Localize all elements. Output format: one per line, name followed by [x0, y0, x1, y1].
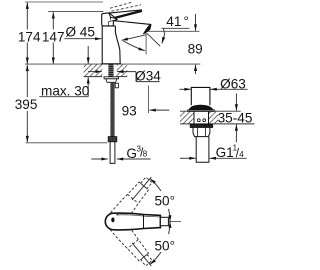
- handle open position (dashed): [110, 2, 132, 8]
- aerator mouth hatch: [143, 31, 148, 35]
- drain deck top line: [180, 110, 241, 112]
- svg-text:G1: G1: [216, 145, 234, 160]
- svg-text:147: 147: [42, 29, 65, 44]
- svg-text:3: 3: [137, 145, 142, 154]
- drain deck bottom line (also 35-45 underline): [180, 123, 255, 125]
- faucet base bottom edge on deck: [102, 63, 121, 65]
- small bracket on hose: [115, 83, 118, 88]
- spout top edge: [114, 21, 151, 25]
- rotated handle outline -50 (dashed): [105, 213, 155, 269]
- dim 174: [26, 3, 28, 30]
- countertop hatching right: [117, 65, 128, 77]
- Ø34 leader jog and underline: [135, 72, 137, 82]
- svg-text:Ø63: Ø63: [220, 77, 246, 92]
- svg-text:°: °: [184, 14, 189, 29]
- svg-text:G: G: [126, 146, 137, 161]
- dim Ø45 leader+arrow: [64, 38, 101, 40]
- drain tailpipe G1 1/4: [196, 137, 209, 163]
- hose end extension line: [26, 142, 108, 144]
- cap slot: [111, 218, 114, 223]
- mounting nut: [104, 77, 119, 79]
- drain cap: [191, 87, 210, 105]
- swivel radial line lower: [132, 243, 151, 266]
- svg-text:8: 8: [143, 150, 148, 159]
- hose end fitting: [108, 137, 117, 142]
- upper swivel arc + arrows: [169, 209, 170, 222]
- svg-text:1: 1: [233, 143, 238, 152]
- swivel radial line upper: [132, 177, 151, 200]
- dim 41° leader: [162, 27, 190, 29]
- svg-text:41: 41: [166, 14, 181, 29]
- dim 35-45 arrows: [235, 94, 237, 111]
- svg-text:35-45: 35-45: [218, 110, 253, 125]
- lock nut: [193, 127, 210, 136]
- overflow holes: [197, 119, 200, 122]
- svg-text:4: 4: [239, 150, 244, 159]
- extension line: faucet max height (top): [25, 1, 103, 3]
- dim 147: [52, 12, 54, 29]
- centerline right: [168, 221, 181, 223]
- svg-text:max. 30: max. 30: [41, 83, 90, 98]
- dim 89 arrows: [195, 14, 197, 31]
- cartridge stem: [160, 217, 168, 225]
- G3/8 arrows: [91, 158, 107, 160]
- extension line: handle top level: [48, 11, 104, 13]
- solid handle top view: [105, 213, 160, 230]
- drain deck hatching: [180, 112, 194, 124]
- flexible hose (braided): [110, 82, 114, 136]
- drain body through deck: [193, 111, 195, 124]
- dim Ø63 arrows: [180, 88, 191, 90]
- washer: [190, 124, 212, 127]
- countertop hatching left: [84, 65, 103, 77]
- dim 93 line + arrow: [148, 86, 150, 114]
- countertop top line: [25, 63, 200, 65]
- countertop bottom line: [84, 76, 103, 78]
- max.30 underline: [39, 96, 88, 98]
- svg-text:395: 395: [15, 97, 38, 112]
- rotated handle outline +50 (dashed): [105, 175, 155, 269]
- G3/8 tube: [110, 142, 115, 164]
- svg-text:50°: 50°: [155, 194, 176, 209]
- spout beak (dark): [143, 25, 151, 34]
- drain flange on deck: [188, 110, 215, 111]
- svg-text:Ø34: Ø34: [135, 68, 161, 83]
- handle lever blade (closed): [109, 10, 142, 13]
- faucet body column: [101, 26, 103, 64]
- svg-text:93: 93: [122, 104, 137, 119]
- svg-text:50°: 50°: [155, 239, 176, 254]
- svg-text:89: 89: [188, 42, 203, 57]
- spout outlet extension line: [147, 30, 200, 32]
- threaded shank through deck: [108, 64, 113, 77]
- stream axis diagonal: [147, 33, 160, 46]
- dim Ø34 arrows at deck hole: [88, 71, 102, 73]
- lower swivel arc + arrows: [169, 222, 170, 235]
- handle knuckle: [102, 13, 117, 26]
- dim 395: [26, 65, 28, 97]
- svg-text:Ø 45: Ø 45: [65, 25, 94, 40]
- stream vertical reference: [145, 33, 147, 54]
- curved arrow to stream line: [124, 41, 145, 51]
- Ø45 right arrow (tail doubles as spout underside): [122, 35, 146, 41]
- drain cap collar: [189, 105, 213, 110]
- dim G1 1/4 arrows: [180, 157, 196, 159]
- fraction slashes: [141, 148, 143, 157]
- dim max.30 arrows: [87, 46, 89, 64]
- svg-text:174: 174: [18, 29, 41, 44]
